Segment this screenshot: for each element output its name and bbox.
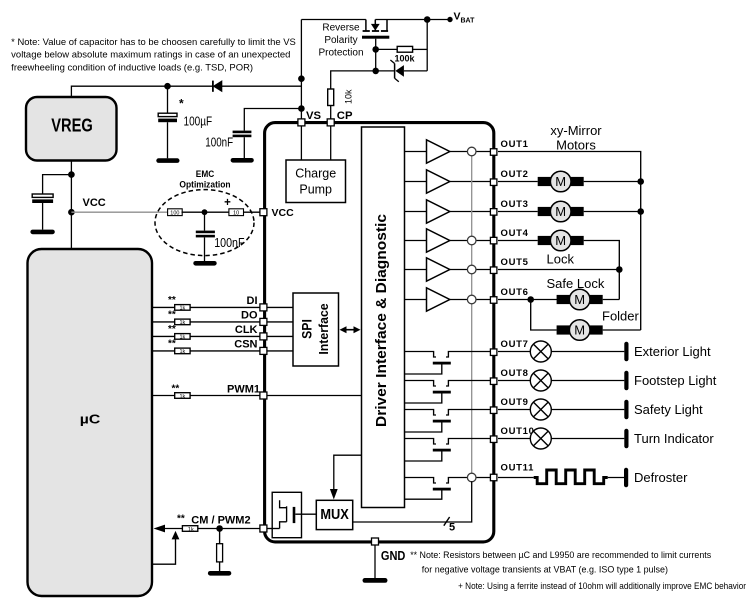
wire DO with resistor — [152, 310, 260, 327]
svg-text:VCC: VCC — [272, 207, 295, 219]
node zener junction — [372, 68, 379, 75]
pin OUT6 — [490, 297, 497, 304]
capacitor 100nF EMC — [196, 212, 245, 261]
svg-text:VCC: VCC — [83, 197, 106, 209]
capacitor 100uF — [158, 86, 212, 158]
ground 100uF — [156, 158, 179, 163]
svg-text:100: 100 — [170, 211, 179, 217]
svg-text:OUT8: OUT8 — [501, 368, 529, 379]
motor M OUT4 lock — [538, 230, 584, 251]
svg-text:* Note: Value of capacitor has: * Note: Value of capacitor has to be cho… — [11, 37, 296, 47]
load bar defroster — [624, 468, 628, 488]
pin VS — [298, 119, 305, 126]
svg-text:freewheeling condition of indu: freewheeling condition of inductive load… — [11, 63, 253, 73]
wire top rail to VBAT — [301, 19, 366, 21]
node bus row2 — [637, 178, 644, 185]
svg-text:CM / PWM2: CM / PWM2 — [191, 515, 250, 527]
svg-text:Defroster: Defroster — [634, 470, 688, 485]
wire safelock motor right — [603, 299, 620, 301]
EMC labels — [179, 169, 230, 190]
svg-text:+ Note: Using a ferrite instea: + Note: Using a ferrite instead of 10ohm… — [458, 581, 746, 591]
load bar safety light — [624, 400, 628, 420]
lamp L7 — [530, 341, 551, 362]
wire VCC gray — [71, 211, 167, 213]
op-amp buffer B3 — [427, 200, 450, 223]
svg-text:1k: 1k — [179, 306, 185, 312]
svg-text:Optimization: Optimization — [179, 179, 230, 190]
op-amp buffer B4 — [427, 229, 450, 252]
wire OUT3 — [498, 211, 538, 213]
node CM junction — [216, 525, 223, 532]
node lock bus — [616, 266, 623, 273]
wire OUT11 to defroster — [498, 477, 534, 479]
svg-text:1k: 1k — [179, 335, 185, 341]
pin OUT1 — [490, 149, 497, 156]
capacitor C VCC left — [32, 175, 71, 230]
wire driver to MUX arrow — [330, 455, 362, 499]
svg-text:V: V — [454, 10, 461, 22]
wire lamp9 to load — [551, 409, 624, 411]
svg-text:MUX: MUX — [320, 507, 349, 523]
svg-text:**: ** — [168, 339, 176, 350]
wire SPI-driver double arrow — [340, 326, 361, 333]
charge pump U2 — [286, 160, 346, 203]
wire VBAT branch vertical — [426, 20, 428, 71]
svg-text:xy-Mirror: xy-Mirror — [550, 123, 602, 138]
svg-text:100k: 100k — [394, 54, 415, 64]
wire VREG top to VS line — [71, 86, 212, 97]
svg-text:M: M — [574, 323, 585, 338]
wire OUT6 branch down to folder — [531, 300, 557, 331]
node sense circle row11 — [467, 473, 476, 482]
svg-text:VREG: VREG — [51, 116, 93, 136]
svg-text:DI: DI — [247, 295, 258, 307]
ground GND — [363, 578, 388, 583]
pin OUT2 — [490, 179, 497, 186]
wire CM pin to monitor — [267, 528, 280, 530]
svg-text:M: M — [555, 233, 566, 248]
svg-text:5: 5 — [449, 521, 455, 533]
svg-text:Motors: Motors — [556, 138, 596, 153]
op-amp buffer B2 — [427, 170, 450, 193]
lamp L9 — [530, 399, 551, 420]
wire OUT9 to lamp — [498, 409, 530, 411]
pin OUT3 — [490, 209, 497, 216]
svg-text:+: + — [224, 197, 231, 209]
svg-text:10: 10 — [233, 211, 239, 217]
op-amp buffer B1 — [427, 140, 450, 163]
svg-text:**: ** — [172, 384, 180, 395]
node sense circle row1 — [467, 147, 476, 156]
wire MUX to sense bus — [353, 481, 472, 522]
pin CP — [327, 119, 334, 126]
VREG regulator box — [26, 97, 117, 161]
wire OUT1 to right bus — [498, 152, 641, 331]
node VS-diode junction — [298, 75, 305, 82]
svg-text:OUT2: OUT2 — [501, 169, 529, 180]
wire DI with resistor — [152, 295, 260, 312]
svg-text:CSN: CSN — [234, 338, 257, 350]
wire OUT6 — [498, 299, 557, 301]
wire motor3 to bus — [584, 211, 641, 213]
motor M OUT2 — [538, 171, 584, 192]
svg-text:10k: 10k — [344, 89, 354, 104]
svg-text:Reverse: Reverse — [322, 23, 360, 34]
MUX box U5 — [316, 500, 352, 529]
wire OUT7 to lamp — [498, 351, 530, 353]
wire OUT2 — [498, 181, 538, 183]
svg-text:1k: 1k — [179, 349, 185, 355]
diode D1 — [213, 81, 222, 92]
svg-text:Charge: Charge — [295, 167, 336, 181]
load bar turn indicator — [624, 429, 628, 449]
svg-text:VS: VS — [306, 110, 322, 122]
ground CM resistor — [208, 571, 231, 576]
wire VS pin to charge pump — [300, 126, 302, 160]
note text bottom — [410, 550, 746, 591]
wire zener junction to CP — [331, 71, 376, 89]
pin OUT8 — [490, 378, 497, 385]
pin GND — [372, 538, 379, 545]
wire folder motor to bus — [603, 329, 641, 331]
pin OUT5 — [490, 267, 497, 274]
xy-Mirror Motors label — [550, 123, 602, 153]
svg-text:for negative voltage transient: for negative voltage transients at VBAT … — [422, 565, 668, 575]
svg-text:OUT7: OUT7 — [501, 339, 529, 350]
ground 100nF VS — [231, 158, 254, 163]
pin CLK — [260, 333, 267, 340]
node bus row3 — [637, 208, 644, 215]
node VBAT branch — [424, 16, 431, 23]
wire defroster to load — [608, 477, 624, 479]
load bar footstep light — [624, 371, 628, 391]
svg-text:Interface: Interface — [316, 303, 331, 354]
pin OUT9 — [490, 407, 497, 414]
wire lamp8 to load — [551, 380, 624, 382]
svg-text:OUT1: OUT1 — [501, 139, 529, 150]
pin CM — [260, 525, 267, 532]
svg-text:*: * — [179, 97, 184, 111]
wire lamp7 to load — [551, 351, 624, 353]
pin CSN — [260, 347, 267, 354]
svg-text:M: M — [574, 292, 585, 307]
resistor 100k — [376, 46, 428, 63]
svg-text:Exterior Light: Exterior Light — [634, 344, 711, 359]
wire diode to VS vertical — [222, 85, 302, 87]
svg-text:Folder: Folder — [602, 309, 640, 324]
op-amp buffer B5 — [427, 258, 450, 281]
Reverse Polarity Protection label — [318, 23, 363, 59]
resistor 100 EMC — [168, 209, 229, 217]
wire CLK with resistor — [152, 324, 260, 341]
transistor Q1 reverse polarity PMOS — [362, 20, 389, 71]
svg-text:OUT11: OUT11 — [501, 463, 535, 474]
wire diagnostic sense line gray — [471, 152, 473, 478]
node sense circle row6 — [467, 295, 476, 304]
node EMC junction — [202, 209, 208, 215]
capacitor 100nF at VS — [205, 109, 301, 159]
svg-text:Safety Light: Safety Light — [634, 402, 703, 417]
svg-text:**: ** — [168, 324, 176, 335]
load bar exterior light — [624, 342, 628, 362]
transistor M9 output — [405, 410, 492, 433]
svg-text:PWM1: PWM1 — [227, 383, 260, 395]
svg-text:OUT9: OUT9 — [501, 397, 529, 408]
svg-text:Footstep Light: Footstep Light — [634, 373, 717, 388]
svg-text:OUT10: OUT10 — [501, 426, 535, 437]
wire GND pin down — [374, 545, 376, 578]
svg-text:Protection: Protection — [318, 48, 363, 59]
EMC optimization ellipse — [155, 190, 254, 256]
wire CSN with resistor — [152, 339, 260, 356]
wire buffer outputs to pins — [450, 152, 491, 300]
svg-text:1k: 1k — [179, 394, 185, 400]
svg-text:OUT6: OUT6 — [501, 287, 529, 298]
diode Z1 zener — [376, 60, 428, 82]
IC main body L9950 — [265, 123, 494, 542]
svg-text:**: ** — [168, 295, 176, 306]
svg-text:100nF: 100nF — [214, 236, 245, 250]
motor M OUT3 — [538, 201, 584, 222]
svg-text:1k: 1k — [188, 527, 194, 533]
resistor pulldown CM — [217, 529, 223, 572]
node cap branch — [68, 171, 75, 178]
wire OUT5 — [498, 269, 619, 271]
svg-text:CLK: CLK — [235, 324, 258, 336]
bus slash 5 — [444, 517, 455, 533]
svg-text:BAT: BAT — [461, 17, 476, 24]
node sense circle row5 — [467, 265, 476, 274]
svg-text:Lock: Lock — [547, 252, 575, 267]
svg-text:EMC: EMC — [196, 169, 215, 180]
svg-text:M: M — [555, 174, 566, 189]
svg-text:voltage below absolute maximum: voltage below absolute maximum ratings i… — [11, 49, 290, 59]
wire VS vertical — [300, 20, 302, 123]
svg-text:M: M — [555, 204, 566, 219]
driver interface block U3 — [362, 127, 405, 508]
triangle buffer rows 1-6 — [405, 152, 427, 300]
SPI interface box U4 — [293, 293, 339, 366]
svg-text:Safe Lock: Safe Lock — [547, 276, 605, 291]
svg-text:DO: DO — [241, 309, 258, 321]
svg-text:**: ** — [177, 514, 185, 525]
resistor defroster heater meander — [534, 470, 608, 484]
svg-text:CP: CP — [337, 110, 353, 122]
svg-text:** Note: Resistors between µC: ** Note: Resistors between µC and L9950 … — [410, 550, 711, 560]
pin OUT10 — [490, 436, 497, 443]
pin PWM1 — [260, 392, 267, 399]
svg-text:100nF: 100nF — [205, 135, 233, 149]
ground cap left — [30, 230, 54, 235]
node VBAT terminal — [447, 17, 452, 22]
wire motor4 to lock bus — [584, 241, 620, 300]
svg-text:Pump: Pump — [299, 183, 332, 197]
svg-text:100µF: 100µF — [184, 114, 213, 128]
transistor M7 output — [405, 352, 492, 375]
motor M folder — [557, 320, 603, 341]
svg-text:**: ** — [168, 310, 176, 321]
wire lamp10 to load — [551, 438, 624, 440]
svg-text:OUT4: OUT4 — [501, 228, 529, 239]
wire PWM1 into driver — [267, 395, 362, 397]
wire feedback arrow up — [152, 531, 179, 564]
wire OUT4 — [498, 240, 538, 242]
svg-text:Polarity: Polarity — [324, 35, 357, 46]
lamp L8 — [530, 370, 551, 391]
node VCC junction — [68, 209, 75, 216]
transistor M10 output — [405, 439, 492, 462]
svg-text:OUT5: OUT5 — [501, 257, 529, 268]
transistor M11 output — [405, 478, 492, 500]
pin VCC — [260, 209, 267, 216]
wire OUT10 to lamp — [498, 438, 530, 440]
node junction 100uF top — [164, 83, 171, 90]
pin OUT11 — [490, 474, 497, 481]
current monitor box — [272, 492, 316, 537]
svg-text:Turn Indicator: Turn Indicator — [634, 431, 714, 446]
pin OUT4 — [490, 237, 497, 244]
wire PWM1 with resistor — [152, 384, 260, 400]
svg-text:µC: µC — [80, 412, 101, 427]
svg-text:1k: 1k — [179, 320, 185, 326]
node OUT6 branch — [527, 296, 534, 303]
pin DI — [260, 304, 267, 311]
uC microcontroller box — [28, 249, 153, 596]
motor M safe lock — [557, 289, 603, 310]
node sense circle row4 — [467, 236, 476, 245]
node gate divider junction — [372, 46, 379, 53]
wire OUT8 to lamp — [498, 380, 530, 382]
node VS-100nF junction — [298, 105, 305, 112]
wire CP pin to charge pump — [330, 126, 332, 160]
lamp L10 — [530, 428, 551, 449]
svg-text:SPI: SPI — [299, 319, 314, 339]
wire VREG to uC — [70, 161, 72, 250]
pin OUT7 — [490, 349, 497, 356]
op-amp buffer B6 — [427, 288, 450, 311]
svg-text:GND: GND — [381, 549, 406, 563]
ground 100nF EMC — [193, 261, 216, 266]
wire SPI pins to SPI box — [267, 307, 293, 351]
wire motor2 to bus — [584, 181, 641, 183]
note text top-left — [11, 37, 296, 73]
resistor 10k — [328, 89, 354, 122]
svg-text:OUT3: OUT3 — [501, 199, 529, 210]
wire CM/PWM2 with resistor — [154, 514, 260, 533]
transistor M8 output — [405, 381, 492, 404]
pin DO — [260, 318, 267, 325]
node VBAT label — [454, 10, 476, 24]
svg-text:Driver Interface & Diagnostic: Driver Interface & Diagnostic — [373, 214, 390, 427]
resistor 10 EMC — [229, 209, 260, 217]
